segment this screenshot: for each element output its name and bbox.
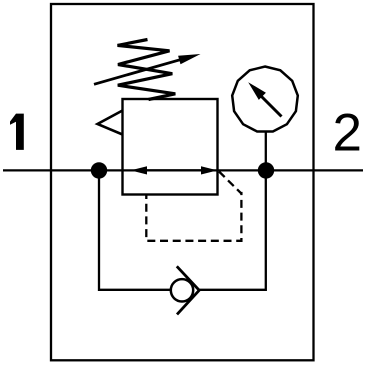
check valve seat	[177, 266, 199, 314]
check valve V1 circle	[171, 279, 193, 301]
pressure gauge G1	[232, 67, 298, 132]
spring adjustment arrow	[94, 54, 201, 84]
wire: main flow line from port 1 to port 2	[3, 169, 363, 171]
manual adjustment symbol	[98, 111, 123, 135]
wire: inlet branch down	[99, 170, 171, 289]
junction node at outlet	[258, 162, 274, 178]
junction node at inlet	[91, 162, 107, 178]
regulator R1 body	[123, 99, 218, 195]
regulator flow path arrows	[131, 166, 218, 174]
enclosure outline	[51, 4, 314, 360]
wire: gauge stem	[265, 132, 267, 171]
adjustment spring	[118, 40, 176, 100]
pilot line (dashed)	[146, 172, 241, 241]
port 1 label	[10, 114, 24, 150]
gauge needle	[248, 82, 281, 116]
svg-text:2: 2	[333, 104, 362, 163]
wire: outlet branch up	[199, 170, 266, 289]
